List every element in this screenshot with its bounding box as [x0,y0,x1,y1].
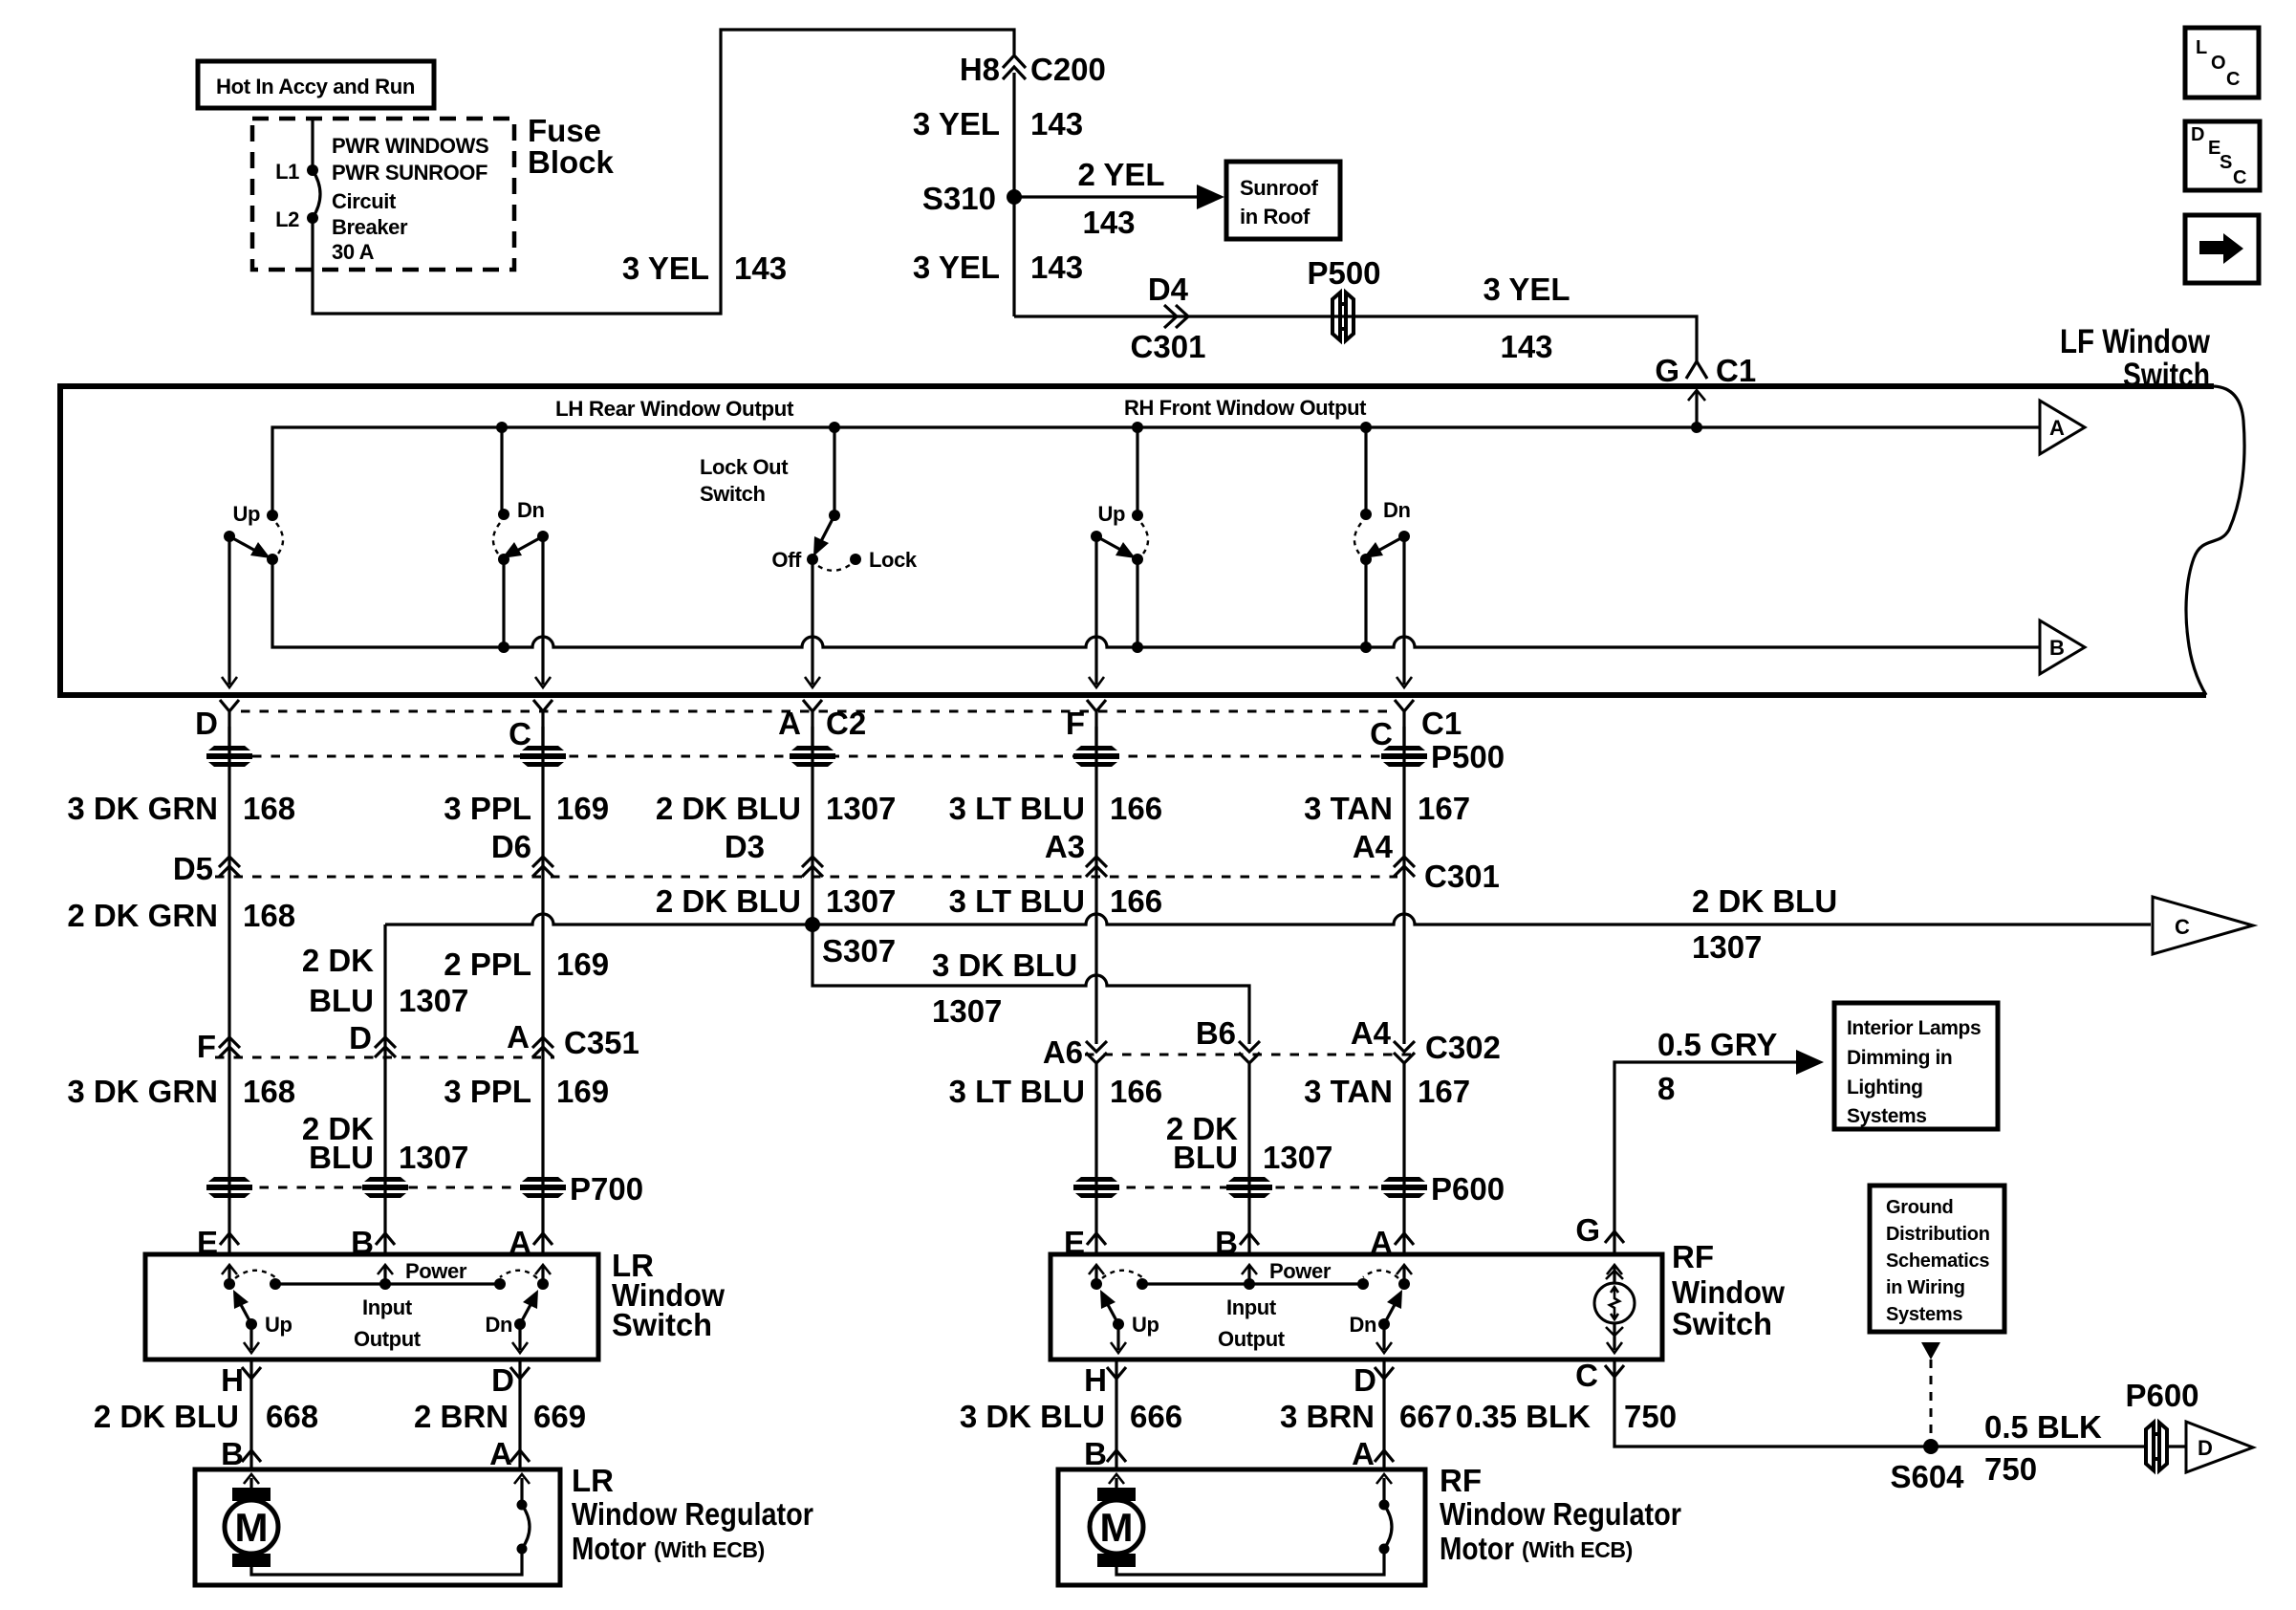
svg-text:Up: Up [265,1313,292,1337]
label 3 LT BLU 166 [949,791,1162,826]
LR switch Dn side [485,1265,551,1353]
wire LR H output to motor B [249,1360,252,1469]
label 2 DK BLU 1307 [656,791,897,826]
wire ECB to A terminal [514,1474,530,1505]
label 3 YEL 143 [913,106,1083,141]
svg-text:Ground: Ground [1886,1197,1953,1218]
svg-text:A6: A6 [1043,1034,1083,1070]
svg-text:30 A: 30 A [332,240,375,264]
svg-text:in Roof: in Roof [1240,205,1310,228]
grommet P500 column F [1073,746,1119,767]
svg-text:Breaker: Breaker [332,215,408,239]
wire Dn contact to bottom rail [502,559,505,647]
svg-text:Systems: Systems [1847,1105,1927,1127]
svg-text:C: C [1575,1358,1598,1393]
wire C column down [541,727,544,1042]
wire P600 to page connector D [2166,1445,2186,1447]
connector C below RF switch [1575,1358,1624,1393]
svg-text:3 YEL: 3 YEL [913,106,1000,141]
svg-text:2 DK BLU: 2 DK BLU [94,1399,239,1434]
label 3 YEL 143 [1483,272,1570,364]
wire S307 rail to page connector C with hops [385,914,2151,925]
svg-text:Off: Off [771,548,802,572]
svg-text:C: C [2226,69,2240,90]
wire ECB to A terminal [1376,1474,1392,1505]
svg-text:C: C [2175,915,2190,939]
svg-text:3 DK BLU: 3 DK BLU [932,947,1077,983]
wire RF C output to ground rail [1614,1360,2147,1447]
splice S307 [805,917,896,968]
svg-text:M: M [1100,1505,1134,1550]
wire motor to ECB [251,1549,522,1575]
svg-text:C1: C1 [1716,353,1756,388]
svg-text:BLU: BLU [1173,1140,1238,1175]
svg-text:Lighting: Lighting [1847,1077,1923,1099]
connector G into RF switch [1575,1212,1624,1248]
svg-text:1307: 1307 [1692,929,1762,965]
grommet P700 column A [520,1177,566,1198]
switch LH rear Dn [493,498,549,565]
connector A [1352,1436,1394,1471]
svg-text:3 YEL: 3 YEL [622,250,709,286]
svg-text:3 PPL: 3 PPL [444,1074,531,1109]
label Fuse Block [528,113,615,180]
LF Window Switch box outline with torn right edge [60,386,2214,695]
svg-text:D4: D4 [1148,272,1189,307]
wire Up output to D terminal [222,536,237,687]
svg-text:C: C [2233,167,2246,188]
RF switch Dn side [1349,1265,1412,1353]
svg-text:166: 166 [1110,883,1162,919]
label RF Window Regulator Motor (With ECB) [1440,1463,1681,1566]
svg-text:D: D [491,1362,514,1398]
svg-text:Fuse: Fuse [528,113,601,148]
wire A column to LR switch A [541,1042,544,1254]
svg-text:Output: Output [1218,1327,1286,1351]
svg-text:D3: D3 [725,829,765,864]
label 3 YEL 143 [913,250,1083,285]
connector D6 [491,829,553,877]
connector H [221,1362,261,1398]
svg-text:0.5 GRY: 0.5 GRY [1657,1027,1777,1062]
svg-text:166: 166 [1110,1074,1162,1109]
svg-text:143: 143 [1500,329,1552,364]
svg-text:Interior Lamps: Interior Lamps [1847,1017,1981,1039]
svg-text:RH Front Window Output: RH Front Window Output [1124,396,1367,420]
svg-text:Schematics: Schematics [1886,1251,1989,1272]
switch LH rear Up [224,422,508,565]
svg-text:3 LT BLU: 3 LT BLU [949,791,1085,826]
svg-text:2 BRN: 2 BRN [414,1399,509,1434]
svg-text:PWR SUNROOF: PWR SUNROOF [332,161,487,185]
svg-text:L: L [2196,37,2207,58]
wire A6 column to RF switch E [1094,1063,1097,1254]
connector A6 [1043,1034,1107,1070]
page connector D triangle [2186,1422,2253,1472]
svg-text:143: 143 [1030,106,1083,141]
label 3 TAN 167 [1304,791,1470,826]
svg-text:2 PPL: 2 PPL [444,946,531,982]
RF Window Regulator Motor box [1058,1469,1425,1585]
svg-text:0.35 BLK: 0.35 BLK [1456,1399,1591,1434]
connector A into LR switch [509,1225,552,1260]
label 2 DK BLU 1307 [302,1111,469,1175]
svg-text:G: G [1655,353,1679,388]
svg-text:LH Rear Window Output: LH Rear Window Output [555,397,794,421]
svg-text:Dn: Dn [485,1313,512,1337]
corner box LOC [2185,28,2259,98]
svg-text:669: 669 [533,1399,586,1434]
switch RH front Dn [1354,422,1411,565]
svg-text:167: 167 [1418,791,1470,826]
svg-text:2 DK: 2 DK [302,943,374,978]
grommet row P500: dashed line [252,755,1381,758]
svg-text:RF: RF [1440,1463,1482,1498]
svg-text:M: M [235,1505,269,1550]
svg-text:P700: P700 [570,1171,643,1207]
svg-text:A: A [489,1436,512,1471]
label 2 YEL 143 [1077,157,1164,240]
wire RH Up contact to bottom rail [1136,559,1138,647]
svg-text:2 DK BLU: 2 DK BLU [656,791,801,826]
RF switch lamp column [1594,1265,1635,1353]
grommet P500 column A [790,746,835,767]
wire lockout output to A terminal [805,559,820,687]
wire Dn pivot to C terminal [535,536,551,687]
svg-text:Distribution: Distribution [1886,1224,1990,1245]
label 3 DK GRN 168 [67,791,295,826]
svg-text:Switch: Switch [700,482,766,506]
svg-text:Dn: Dn [517,498,545,522]
label 3 PPL 169 [444,1074,609,1109]
wire G feed arrow into box [1688,390,1705,427]
RF Window Switch box [1051,1254,1662,1360]
connector E into LR switch [197,1225,239,1260]
box Ground Distribution Schematics in Wiring Systems [1870,1186,2004,1332]
svg-text:B: B [221,1436,244,1471]
svg-text:D: D [2191,124,2204,145]
wire RF G terminal to interior lamps feed [1614,1062,1797,1254]
box Sunroof in Roof [1226,162,1340,239]
motor M LR [225,1474,278,1567]
svg-text:168: 168 [243,791,295,826]
svg-text:668: 668 [266,1399,318,1434]
svg-text:Dimming in: Dimming in [1847,1047,1952,1069]
connector row C302 dashed line [1085,1054,1417,1056]
corner box DESC [2185,121,2260,190]
svg-text:BLU: BLU [309,1140,374,1175]
ECB breaker arc LR [517,1500,531,1555]
ground reference triangle [1921,1342,1940,1360]
svg-text:A4: A4 [1353,829,1394,864]
svg-text:C351: C351 [564,1025,639,1060]
connector A3 [1045,829,1107,877]
connector D3 [725,829,823,877]
wire RH Dn pivot to C terminal [1397,536,1412,687]
grommet P500 column C1 [1381,746,1427,767]
svg-text:Window: Window [1672,1274,1785,1310]
svg-text:A3: A3 [1045,829,1085,864]
page connector A triangle [2040,401,2085,454]
svg-text:3 BRN: 3 BRN [1280,1399,1375,1434]
svg-text:2 DK BLU: 2 DK BLU [1692,883,1837,919]
svg-text:Motor: Motor [572,1531,646,1566]
svg-text:169: 169 [556,1074,609,1109]
wire H8 to S310 [1012,73,1015,197]
grommet row P600 dashed line [1108,1186,1393,1189]
svg-text:1307: 1307 [826,791,896,826]
svg-text:C301: C301 [1131,329,1206,364]
wire F column to LR switch E [227,1042,230,1254]
splice S310 [922,181,1022,216]
label LR Window Regulator Motor (With ECB) [572,1463,813,1566]
page connector B triangle [2040,620,2085,674]
grommet P600 column A [1381,1177,1427,1198]
dashed wire to S604 [1930,1360,1933,1440]
wire RF D output to motor A [1382,1360,1385,1469]
label 2 DK BLU 1307 for branch [302,943,469,1018]
svg-text:Lock: Lock [869,548,918,572]
connector row C301: dashed line [215,876,1397,879]
node G feed junction [1691,422,1702,433]
box Interior Lamps Dimming in Lighting Systems [1834,1003,1998,1129]
svg-text:S307: S307 [822,933,896,968]
svg-text:(With ECB): (With ECB) [654,1537,765,1562]
wire inner bottom rail with hops [272,559,2040,647]
svg-text:3 DK BLU: 3 DK BLU [960,1399,1105,1434]
svg-text:C302: C302 [1425,1030,1501,1065]
LR switch internals: power rail [270,1259,506,1351]
svg-text:Switch: Switch [1672,1306,1772,1341]
page connector C triangle [2153,897,2253,954]
svg-text:A: A [1352,1436,1375,1471]
connector A at C351 [507,1019,553,1057]
wire inner top rail [272,427,2040,515]
label LR Window Switch [612,1248,725,1342]
svg-text:143: 143 [734,250,787,286]
svg-text:Switch: Switch [612,1307,712,1342]
svg-text:3 DK GRN: 3 DK GRN [67,791,218,826]
connector row below LF switch: chevrons D C A-C2 F C-C1 [195,700,239,746]
svg-text:B6: B6 [1196,1015,1236,1051]
svg-text:L2: L2 [275,207,299,231]
svg-text:1307: 1307 [932,993,1002,1029]
label 2 PPL 169 [444,946,609,982]
wire RH Up pivot to F terminal [1089,536,1104,687]
svg-text:2 YEL: 2 YEL [1077,157,1164,192]
svg-text:Dn: Dn [1349,1313,1376,1337]
connector F at C351 [197,1029,240,1064]
svg-text:Dn: Dn [1383,498,1411,522]
wire S310 to LF switch feed [1014,316,1697,361]
label 3 BRN 667 [1280,1399,1452,1434]
label 2 DK BLU 1307 [1166,1111,1333,1175]
label 3 TAN 167 [1304,1074,1470,1109]
label 0.5 GRY 8 [1657,1027,1777,1106]
svg-text:A: A [2049,416,2065,440]
connector B into LR switch [351,1225,395,1260]
svg-text:Window Regulator: Window Regulator [1440,1496,1681,1532]
svg-text:167: 167 [1418,1074,1470,1109]
svg-text:S310: S310 [922,181,996,216]
svg-text:LR: LR [572,1463,614,1498]
wire A4 column to RF switch A [1402,1063,1405,1254]
label 3 DK BLU 1307 [932,947,1077,1029]
label 3 DK GRN 168 [67,1074,295,1109]
svg-text:D: D [1354,1362,1376,1398]
svg-text:2 DK BLU: 2 DK BLU [656,883,801,919]
svg-text:3 PPL: 3 PPL [444,791,531,826]
connector A4 [1353,829,1415,877]
svg-text:Hot In Accy and Run: Hot In Accy and Run [216,75,415,98]
svg-text:8: 8 [1657,1071,1675,1106]
svg-text:169: 169 [556,791,609,826]
svg-text:C301: C301 [1424,859,1500,894]
box Hot In Accy and Run [198,61,434,108]
grommet row P700 dashed line [241,1186,531,1189]
wire C1 column down [1402,727,1405,1044]
svg-text:1307: 1307 [826,883,896,919]
svg-text:1307: 1307 [399,983,468,1018]
connector B into RF switch [1215,1225,1259,1260]
grommet P500 column C [520,746,566,767]
label 2 DK GRN 168 [67,898,295,933]
svg-text:P500: P500 [1431,739,1505,774]
svg-text:H: H [221,1362,244,1398]
wire D column to LR switch B [383,1042,386,1254]
svg-text:3 LT BLU: 3 LT BLU [949,1074,1085,1109]
connector E into RF switch [1064,1225,1106,1260]
svg-text:RF: RF [1672,1239,1714,1274]
svg-text:Power: Power [1269,1259,1332,1283]
splice S604 [1890,1439,1964,1494]
wire corner down to C351 D column [383,925,386,1042]
grommet P700 column E [206,1177,252,1198]
wire S310 to Sunroof with arrow [1014,185,1224,209]
svg-text:P600: P600 [1431,1171,1505,1207]
motor M RF [1090,1474,1143,1567]
svg-text:1307: 1307 [1263,1140,1332,1175]
svg-text:166: 166 [1110,791,1162,826]
connector A [489,1436,530,1471]
svg-text:B: B [1084,1436,1107,1471]
svg-text:Sunroof: Sunroof [1240,176,1319,200]
svg-text:Lock Out: Lock Out [700,455,789,479]
svg-text:Power: Power [405,1259,467,1283]
LR Window Switch box [145,1254,598,1360]
svg-text:(With ECB): (With ECB) [1522,1537,1633,1562]
label 3 YEL 143 (left vertical) [622,250,787,286]
inline connector P500 (in roof harness) [1307,255,1380,340]
svg-text:PWR WINDOWS: PWR WINDOWS [332,134,488,158]
svg-text:168: 168 [243,898,295,933]
svg-text:BLU: BLU [309,983,374,1018]
svg-text:3 DK GRN: 3 DK GRN [67,1074,218,1109]
grommet P700 column B [362,1177,408,1198]
circuit breaker PWR WINDOWS PWR SUNROOF 30 A [307,119,320,270]
label 3 DK BLU 666 [960,1399,1182,1434]
svg-text:3 YEL: 3 YEL [913,250,1000,285]
label 2 DK BLU 1307 at right end [1692,883,1837,965]
connector D [491,1362,530,1398]
svg-text:2 DK GRN: 2 DK GRN [67,898,218,933]
label 0.5 BLK 750 [1984,1409,2102,1487]
wire from breaker L2 to top run [313,30,1014,314]
connector B [1084,1436,1126,1471]
svg-text:C200: C200 [1030,52,1106,87]
svg-text:Up: Up [1097,502,1125,526]
switch Lock Out [771,422,917,572]
connector A4 at C302 [1351,1015,1415,1063]
svg-text:3 YEL: 3 YEL [1483,272,1570,307]
svg-text:Window Regulator: Window Regulator [572,1496,813,1532]
svg-text:667: 667 [1399,1399,1452,1434]
svg-text:Input: Input [1226,1295,1277,1319]
inline connector P600 ground [2125,1378,2199,1470]
connector B [221,1436,261,1471]
wire F column down [1094,727,1097,1044]
connector row C351 dashed line [215,1056,554,1059]
switch RH front Up [1091,422,1148,565]
svg-text:G: G [1575,1212,1600,1248]
arrow to interior lamps [1796,1050,1824,1075]
RF switch internals: power rail [1137,1259,1369,1351]
svg-text:H: H [1084,1362,1107,1398]
wire S307 branch down and right to B6 [812,925,1249,1044]
connector A into RF switch [1370,1225,1414,1260]
label 0.35 BLK 750 [1456,1399,1677,1434]
svg-text:LF Window: LF Window [2060,323,2211,360]
connector B6 [1196,1015,1260,1063]
label Lock Out Switch [700,455,789,506]
svg-text:D6: D6 [491,829,531,864]
svg-text:A4: A4 [1351,1015,1392,1051]
svg-text:3 TAN: 3 TAN [1304,1074,1393,1109]
label 2 BRN 669 [414,1399,586,1434]
LR Window Regulator Motor box [195,1469,560,1585]
svg-text:0.5 BLK: 0.5 BLK [1984,1409,2102,1445]
wire A column down to S307 [811,727,813,925]
svg-text:750: 750 [1984,1451,2037,1487]
grommet P500 column D [206,746,252,767]
svg-text:666: 666 [1130,1399,1182,1434]
svg-text:D5: D5 [173,851,213,886]
connector H8 C200 (double chevron) [960,52,1106,87]
connector D [1354,1362,1394,1398]
svg-text:C1: C1 [1421,706,1462,741]
svg-text:L1: L1 [275,160,299,184]
svg-text:in Wiring: in Wiring [1886,1277,1965,1298]
label RF Window Switch [1672,1239,1785,1341]
svg-text:Circuit: Circuit [332,189,397,213]
RF switch Up side [1089,1265,1159,1353]
svg-text:F: F [197,1029,216,1064]
svg-text:3 LT BLU: 3 LT BLU [949,883,1085,919]
svg-text:168: 168 [243,1074,295,1109]
svg-text:Systems: Systems [1886,1304,1962,1325]
LR switch Up side [222,1265,292,1353]
connector H [1084,1362,1126,1398]
svg-text:P500: P500 [1307,255,1380,291]
connector D4 C301 (double chevron right) [1131,272,1206,364]
svg-text:D: D [349,1020,372,1055]
wire RF H output to motor B [1115,1360,1117,1469]
grommet P600 column B [1226,1177,1272,1198]
label 2 DK BLU 668 [94,1399,318,1434]
svg-text:S604: S604 [1890,1459,1964,1494]
corner box arrow [2185,215,2259,283]
wire S310 down [1012,197,1015,316]
